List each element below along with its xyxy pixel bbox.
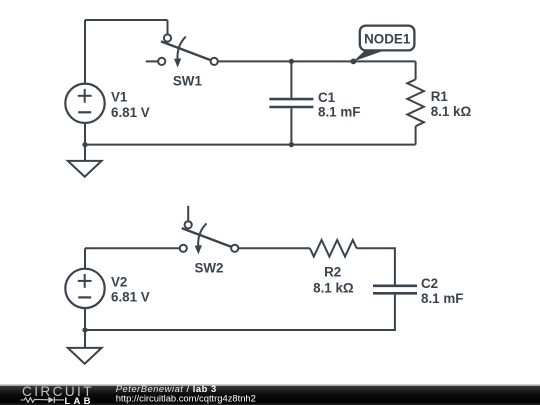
node NODE1 dot [351,59,357,65]
wire SW1 top terminal lead [167,20,169,34]
wire C1 bottom lead [290,108,292,144]
wire ground 2 lead [84,330,86,348]
voltage source V1 [65,84,104,123]
svg-text:SW1: SW1 [173,74,203,89]
wire V1 bottom lead [84,123,86,145]
svg-text:R2: R2 [324,265,341,280]
svg-text:8.1 mF: 8.1 mF [421,291,463,306]
wire SW1 to R1 corner (through junctions) [218,60,416,62]
logo resistor-diode art [21,397,64,403]
capacitor C2 [373,286,417,294]
svg-text:V2: V2 [111,275,127,290]
svg-text:8.1 mF: 8.1 mF [318,105,360,120]
voltage source V2 [65,269,104,308]
switch SW1 [146,34,218,67]
resistor R1 [407,79,424,126]
wire V2 bottom lead [84,308,86,330]
footer bar [0,384,540,405]
wire ground 1 lead [84,145,86,161]
wire top horizontal to SW1 [85,19,168,21]
node flag NODE1 [353,26,414,62]
wire R2 to C2 corner [357,248,395,284]
wire SW2 to R2 [238,247,310,249]
svg-text:6.81 V: 6.81 V [111,105,150,120]
ground 1 [68,161,102,177]
ground 2 [68,348,102,364]
svg-text:C2: C2 [421,276,438,291]
wire V2 to SW2 [85,247,180,249]
wire V2 top lead [84,248,86,268]
svg-text:NODE1: NODE1 [364,32,411,47]
junction dot at C1 top [289,59,294,64]
svg-text:R1: R1 [431,89,449,104]
switch SW2 [180,206,239,255]
svg-text:http://circuitlab.com/cqttrg4z: http://circuitlab.com/cqttrg4z8tnh2 [116,393,256,404]
svg-text:8.1 kΩ: 8.1 kΩ [313,281,354,296]
resistor R2 [310,240,357,257]
junction dot at C1 bottom [289,142,294,147]
junction dot at V2 bottom [82,327,87,332]
wire R1 bottom lead [415,126,417,144]
svg-text:SW2: SW2 [194,261,223,276]
svg-text:C1: C1 [318,90,336,105]
svg-text:LAB: LAB [65,396,94,405]
wire C1 top lead [290,61,292,98]
wire top-left vertical from corner to V1 top [84,20,86,84]
wire bottom rail of top circuit [85,144,416,146]
wire C2 bottom lead and bottom rail [85,295,395,331]
svg-text:V1: V1 [111,90,128,105]
wire R1 top lead [415,61,417,79]
svg-text:6.81 V: 6.81 V [111,290,150,305]
svg-text:8.1 kΩ: 8.1 kΩ [431,104,472,119]
junction dot at V1 bottom [82,142,87,147]
capacitor C1 [269,99,313,107]
